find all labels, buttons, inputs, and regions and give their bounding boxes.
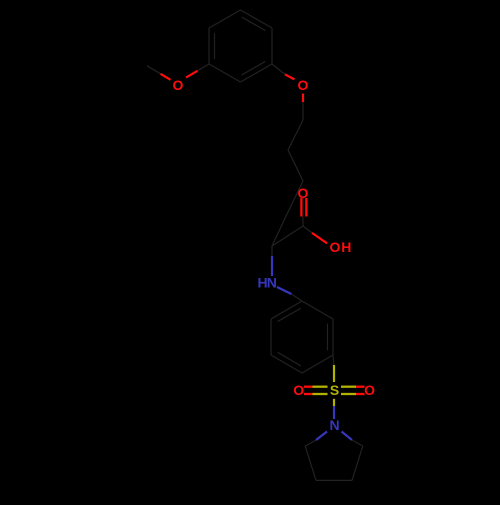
wire ring edge B'-T: [241, 10, 273, 28]
wire inner aromatic line A'-A: [214, 33, 216, 59]
svg-text:O: O: [364, 382, 375, 398]
wire right O to B red half: [285, 74, 295, 79]
wire ring edge C3-C4: [302, 355, 333, 373]
wire C to OH red half: [312, 233, 327, 243]
wire ring edge B-B': [271, 28, 273, 64]
wire ring edge C1-C2: [302, 301, 333, 319]
wire ring edge A'-A: [208, 28, 210, 64]
wire ring edge A-V: [209, 64, 241, 82]
wire left O to A red half: [186, 71, 198, 78]
wire inner aromatic line V-B: [242, 61, 266, 75]
wire inner aromatic line B'-T: [242, 17, 266, 31]
wire Cb-left to Cb-right: [316, 479, 352, 481]
svg-text:O: O: [330, 239, 341, 255]
svg-text:N: N: [267, 275, 277, 291]
wire chain P2-P3: [288, 150, 303, 181]
wire inner aromatic line C6-C1: [278, 308, 301, 321]
wire N to Ca-right blue half: [342, 432, 353, 441]
wire A to left O carbon half: [198, 64, 210, 71]
wire ring edge C6-C1: [271, 301, 302, 319]
wire left O to methyl red half: [161, 74, 171, 80]
benzene ring top (3-methoxyphenoxy): [209, 10, 272, 82]
svg-text:N: N: [329, 417, 339, 433]
wire C to OH gray half: [303, 226, 312, 233]
svg-text:O: O: [298, 77, 309, 93]
wire N to Ca-right carbon half: [352, 440, 363, 446]
wire Ca-left to Cb-left: [305, 446, 316, 480]
wire C=O double bond red lines: [300, 198, 302, 217]
wire C3 to S carbon half: [333, 355, 334, 365]
wire ring edge C4-C5: [271, 355, 302, 373]
benzene ring middle (aniline): [271, 301, 333, 373]
wire S to N blue half: [333, 406, 335, 419]
wire ring edge T-A': [209, 10, 241, 28]
wire alpha to carbonyl C: [272, 226, 303, 246]
wire inner aromatic line C2-C3: [327, 324, 329, 351]
svg-text:O: O: [173, 77, 184, 93]
wire right O down red half: [302, 94, 304, 103]
wire N to C1 carbon half: [291, 294, 302, 301]
svg-text:H: H: [341, 239, 351, 255]
wire C3 to S yellow half: [333, 365, 335, 382]
wire ring edge V-B: [241, 64, 273, 82]
wire ring edge C2-C3: [332, 319, 334, 355]
wire S=O right double bond: [341, 386, 356, 388]
wire C=O gray stub: [302, 217, 304, 227]
wire N to Ca-left blue half: [316, 432, 327, 441]
wire ring edge C5-C6: [270, 319, 272, 355]
wire S=O left double bond: [304, 386, 313, 388]
wire S to N yellow half: [333, 399, 335, 406]
wire O to P1 carbon half: [302, 102, 304, 120]
wire chain P3-P4: [288, 181, 303, 212]
svg-text:S: S: [330, 382, 339, 398]
wire chain P1-P2: [288, 120, 303, 150]
wire inner aromatic line C4-C5: [278, 352, 301, 366]
wire chain P4-alpha: [272, 212, 288, 246]
wire N to C1 blue half: [277, 287, 291, 294]
wire methyl carbon half: [147, 66, 161, 74]
wire Cb-right to Ca-right: [352, 446, 363, 480]
wire B to right O carbon half: [272, 64, 285, 74]
wire alpha to N blue bond: [271, 246, 273, 256]
svg-text:O: O: [293, 382, 304, 398]
wire N to Ca-left carbon half: [305, 440, 316, 446]
